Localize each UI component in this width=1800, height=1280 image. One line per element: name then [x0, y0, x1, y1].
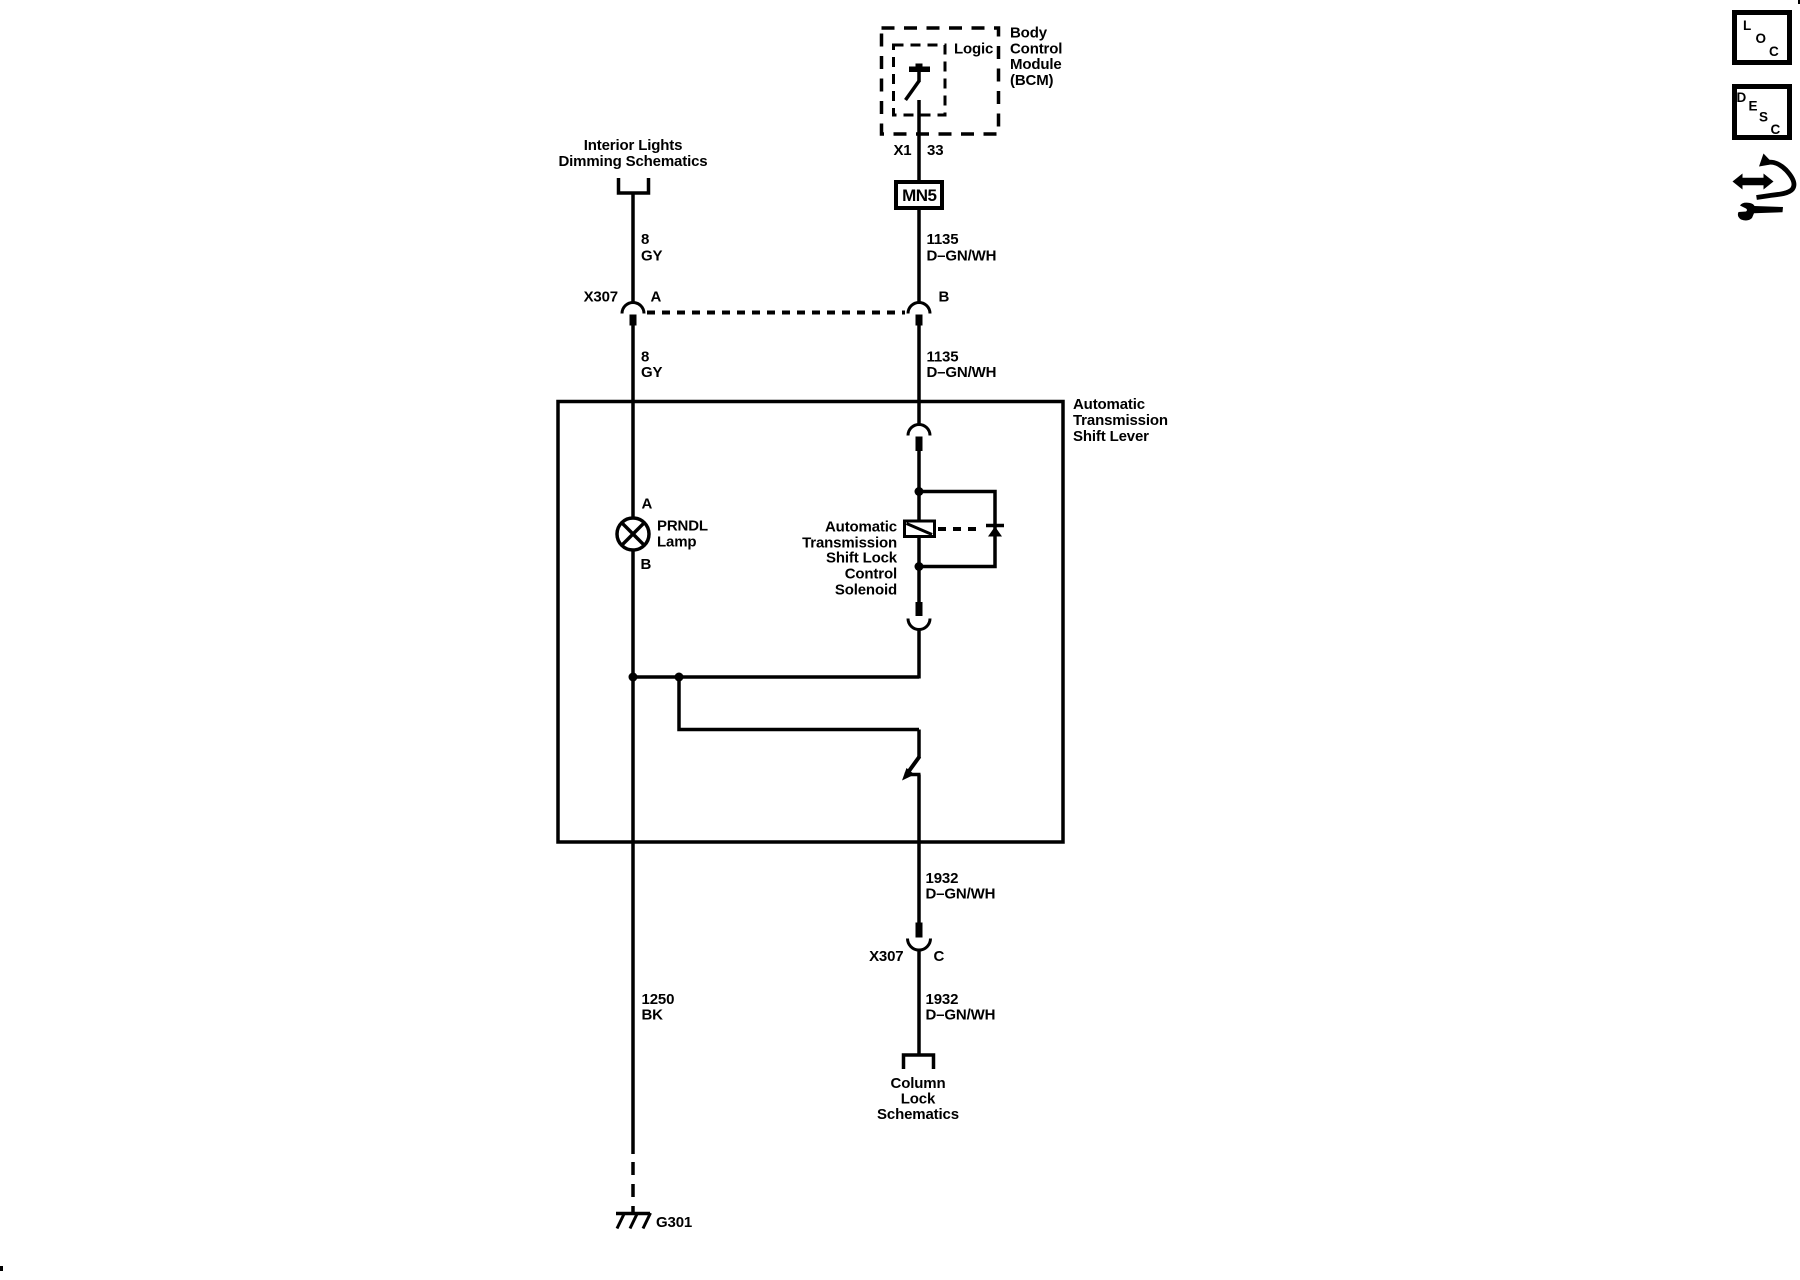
wire: solenoid to lower connector — [917, 538, 921, 602]
svg-text:C: C — [934, 948, 945, 965]
Automatic Transmission Shift Lever box — [558, 402, 1063, 843]
BCM outer dashed box — [882, 28, 999, 134]
svg-text:Control: Control — [1010, 40, 1062, 57]
navigation icon: double arrow, loop arrow, wrench — [1733, 154, 1795, 221]
svg-text:X1: X1 — [893, 142, 911, 159]
svg-text:Column: Column — [891, 1075, 946, 1092]
svg-text:L: L — [1743, 18, 1751, 33]
dashed wire between connector halves A and B — [647, 311, 905, 315]
svg-text:MN5: MN5 — [902, 186, 936, 205]
solenoid connector (top): arc and pin — [908, 425, 930, 436]
svg-text:GY: GY — [641, 364, 663, 381]
svg-text:Lamp: Lamp — [657, 534, 696, 551]
svg-text:1250: 1250 — [642, 991, 675, 1008]
svg-text:Automatic: Automatic — [825, 519, 897, 536]
park switch contact stub — [905, 773, 921, 777]
wire: branch to park switch — [679, 677, 919, 730]
LOC hyperlink box — [1735, 13, 1790, 63]
svg-text:1135: 1135 — [927, 231, 959, 248]
DESC hyperlink box — [1735, 87, 1790, 138]
svg-text:A: A — [642, 496, 653, 513]
svg-text:(BCM): (BCM) — [1010, 72, 1054, 89]
park switch blade arrowhead — [902, 768, 915, 781]
svg-text:B: B — [641, 556, 652, 573]
svg-text:D–GN/WH: D–GN/WH — [926, 1007, 996, 1024]
svg-text:D–GN/WH: D–GN/WH — [927, 248, 997, 265]
svg-text:Schematics: Schematics — [877, 1106, 959, 1123]
wire: internal ground rail — [632, 675, 920, 679]
off-page connector: Column Lock Schematics — [904, 1055, 934, 1069]
solenoid diagonal — [907, 524, 933, 535]
wire: lamp B down to ground run — [631, 550, 635, 1154]
svg-text:Interior Lights: Interior Lights — [584, 137, 683, 154]
svg-text:S: S — [1759, 110, 1768, 125]
wire: switch to X307 C — [917, 775, 921, 923]
off-page connector: Interior Lights Dimming Schematics — [619, 178, 649, 193]
svg-text:D–GN/WH: D–GN/WH — [926, 886, 996, 903]
svg-text:Module: Module — [1010, 56, 1062, 73]
wrench — [1738, 203, 1783, 221]
svg-text:E: E — [1749, 99, 1758, 114]
svg-text:Shift Lock: Shift Lock — [826, 550, 898, 567]
loop arrow — [1757, 162, 1795, 197]
svg-text:A: A — [651, 289, 662, 306]
solenoid coil box — [905, 521, 935, 537]
page corner artifacts — [1798, 0, 1800, 4]
wire: BCM output to fuse MN5 — [917, 100, 921, 180]
svg-text:8: 8 — [641, 349, 649, 366]
junction node at switch branch — [675, 673, 684, 682]
diode (clamp) cathode bar — [986, 524, 1004, 528]
svg-text:Body: Body — [1010, 25, 1048, 42]
svg-text:PRNDL: PRNDL — [657, 518, 708, 535]
svg-text:1932: 1932 — [926, 870, 959, 887]
svg-text:Shift Lever: Shift Lever — [1073, 428, 1149, 445]
double-headed arrow — [1733, 174, 1774, 190]
junction node on lamp wire — [629, 673, 638, 682]
dashed wire to ground — [631, 1162, 635, 1212]
svg-text:X307: X307 — [584, 289, 618, 306]
svg-text:O: O — [1756, 31, 1767, 46]
svg-text:B: B — [939, 289, 950, 306]
svg-text:Lock: Lock — [901, 1091, 936, 1108]
fuse MN5 — [896, 182, 942, 208]
svg-text:X307: X307 — [869, 948, 903, 965]
wire: connector to ground rail — [917, 630, 921, 679]
svg-text:33: 33 — [927, 142, 943, 159]
park switch blade — [909, 757, 920, 772]
svg-text:G301: G301 — [656, 1214, 692, 1231]
svg-text:GY: GY — [641, 248, 663, 265]
svg-text:BK: BK — [642, 1007, 664, 1024]
svg-text:D–GN/WH: D–GN/WH — [927, 364, 997, 381]
wire: 8 GY from Interior Lights to X307 A — [631, 193, 635, 302]
svg-text:Transmission: Transmission — [1073, 412, 1168, 429]
svg-text:1932: 1932 — [926, 991, 959, 1008]
wire: 8 GY from X307 A to PRNDL lamp — [631, 326, 635, 519]
svg-text:8: 8 — [641, 231, 649, 248]
svg-text:Dimming Schematics: Dimming Schematics — [558, 153, 707, 170]
wire: 1135 D-GN/WH from MN5 to X307 B — [917, 210, 921, 302]
wire: 1932 D-GN/WH to Column Lock Schematics — [917, 950, 921, 1054]
junction node (top of diode loop) — [915, 487, 924, 496]
BCM driver symbol (switch blade with bar) — [909, 67, 930, 73]
svg-text:D: D — [1737, 90, 1747, 105]
solenoid connector (bottom): pin and arc — [916, 602, 923, 616]
PRNDL lamp — [617, 518, 649, 550]
inline connector X307 pin B — [908, 303, 930, 314]
svg-text:1135: 1135 — [927, 349, 959, 366]
diode triangle — [988, 527, 1002, 537]
dashed link solenoid to diode — [938, 527, 980, 531]
svg-text:C: C — [1771, 122, 1781, 137]
wire: 1135 D-GN/WH from X307 B into shift lever box — [917, 326, 921, 425]
inline connector X307 pin C — [916, 923, 923, 938]
svg-text:Automatic: Automatic — [1073, 396, 1145, 413]
park switch: fixed side — [917, 730, 921, 759]
svg-text:C: C — [1769, 44, 1779, 59]
BCM inner dashed box (Logic) — [894, 45, 946, 115]
wire: diode bypass loop — [919, 492, 995, 567]
svg-text:Solenoid: Solenoid — [835, 582, 897, 599]
svg-text:Logic: Logic — [954, 41, 993, 58]
svg-text:Control: Control — [845, 566, 897, 583]
inline connector X307 pin A — [622, 303, 644, 314]
ground G301 — [616, 1212, 650, 1216]
wire: connector to solenoid — [917, 451, 921, 520]
junction node (bottom of diode loop) — [915, 562, 924, 571]
